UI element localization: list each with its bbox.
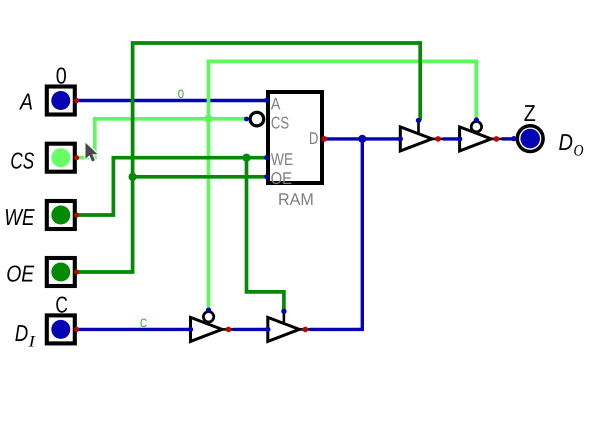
- red dot buffer U4 output: [494, 136, 500, 142]
- junction node: blue D net: [358, 135, 366, 143]
- svg-text:A: A: [271, 94, 281, 113]
- junction node: dark green WE net: [242, 154, 250, 162]
- svg-text:WE: WE: [271, 150, 293, 169]
- svg-text:WE: WE: [4, 204, 35, 230]
- wire: blue bus A pin to RAM A port: [77, 99, 267, 102]
- svg-text:CS: CS: [271, 113, 289, 132]
- red connection dot pin DI: [74, 327, 79, 332]
- svg-text:D: D: [559, 129, 574, 155]
- tri-state buffer U2 (bottom right): [265, 309, 311, 342]
- svg-text:C: C: [55, 291, 68, 317]
- RAM CS port dot: [244, 117, 249, 122]
- RAM A port dot: [264, 98, 269, 103]
- svg-text:OE: OE: [271, 169, 293, 188]
- junction node: light green CS net: [204, 115, 212, 123]
- tri-state buffer U3 (top left): [398, 118, 444, 151]
- wire: blue bus vertical from node at D line down to bottom bus: [361, 139, 364, 330]
- input pin A (square): [47, 87, 75, 115]
- wire: blue bus buffer U4 output to output pin DO: [502, 137, 517, 140]
- svg-text:0: 0: [56, 62, 67, 88]
- svg-text:CS: CS: [10, 147, 34, 173]
- wire: dark green OE pin up and over to buffer U3 enable: [77, 43, 420, 272]
- svg-text:O: O: [574, 143, 584, 160]
- red dot buffer U1 output: [226, 327, 232, 333]
- red dot buffer U2 output: [303, 327, 309, 333]
- svg-text:A: A: [18, 89, 33, 115]
- output pin DO (double circle): [511, 126, 543, 152]
- svg-text:0: 0: [178, 87, 185, 101]
- red connection dot pin OE: [74, 269, 79, 274]
- wire: dark green WE pin to RAM WE port: [77, 158, 267, 215]
- wire: light green CS net vertical and top run to buffer U4 bubble: [209, 61, 477, 310]
- svg-text:Z: Z: [524, 100, 536, 126]
- input pin WE (square): [47, 201, 75, 229]
- mouse cursor: [86, 143, 98, 162]
- svg-text:D: D: [309, 129, 319, 148]
- wire: blue bus buffer U3 output to buffer U4 input: [443, 137, 460, 140]
- svg-text:RAM: RAM: [278, 190, 314, 209]
- wire: light green CS pin to RAM CS bubble: [77, 119, 247, 158]
- red connection dot pin CS: [74, 155, 79, 160]
- red connection dot pin WE: [74, 212, 79, 217]
- wire: blue bus DI pin to buffer U1 input: [77, 328, 191, 331]
- svg-text:OE: OE: [6, 260, 35, 286]
- RAM CS invert bubble: [250, 112, 264, 126]
- RAM OE port dot: [264, 174, 269, 179]
- RAM WE port dot: [264, 155, 269, 160]
- wire: blue bus RAM D output to buffer U3 input: [325, 137, 400, 140]
- svg-text:D: D: [15, 320, 29, 346]
- input pin OE (square): [47, 258, 75, 286]
- tri-state buffer U1 (bottom left, inverted enable): [188, 308, 234, 342]
- tri-state buffer U4 (top right, inverted enable): [457, 117, 503, 150]
- wire: dark green OE branch to RAM OE port: [133, 175, 267, 179]
- wire: blue bus buffer U2 output to vertical node: [310, 328, 364, 331]
- input pin DI (square): [47, 315, 75, 343]
- red dot buffer U3 output: [435, 136, 441, 142]
- wire: blue bus buffer U1 output to buffer U2 input: [233, 328, 268, 331]
- junction node: dark green OE net: [129, 173, 137, 181]
- RAM U5 box: [268, 92, 322, 183]
- wire: dark green WE branch down to buffer U2 enable: [247, 158, 284, 312]
- red connection dot pin A: [74, 98, 79, 103]
- input pin CS (square): [47, 144, 75, 172]
- RAM D output red dot: [321, 136, 327, 142]
- svg-text:C: C: [140, 316, 147, 330]
- svg-text:I: I: [27, 333, 35, 350]
